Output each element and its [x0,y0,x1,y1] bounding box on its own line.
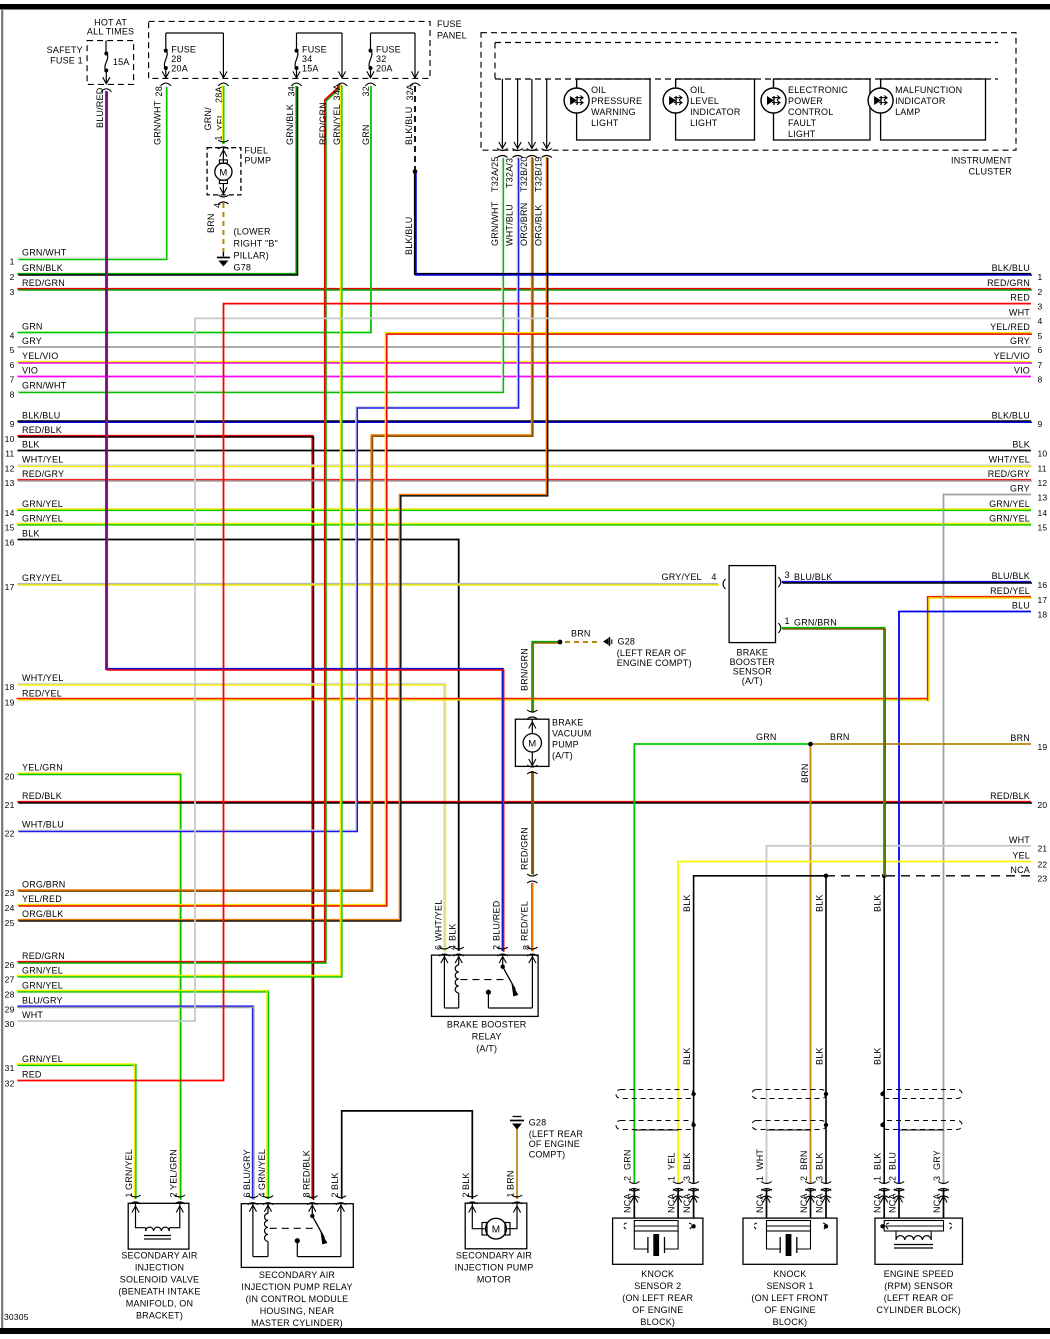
svg-text:ENGINE SPEED: ENGINE SPEED [884,1269,954,1279]
svg-text:FUSE: FUSE [376,45,401,55]
svg-text:(LEFT REAR OF: (LEFT REAR OF [884,1293,954,1303]
svg-text:YEL/RED: YEL/RED [990,322,1030,332]
svg-text:RED/BLK: RED/BLK [301,1150,311,1190]
svg-text:INJECTION: INJECTION [135,1263,184,1273]
svg-text:20A: 20A [376,64,393,74]
svg-text:19: 19 [5,697,15,707]
svg-text:21: 21 [5,800,15,810]
svg-text:20: 20 [1038,800,1048,810]
svg-text:PILLAR): PILLAR) [234,251,269,261]
svg-text:SENSOR 1: SENSOR 1 [766,1281,813,1291]
svg-text:18: 18 [5,682,15,692]
svg-text:LIGHT: LIGHT [788,129,816,139]
svg-text:13: 13 [5,478,15,488]
svg-text:2: 2 [623,1176,633,1181]
svg-text:POWER: POWER [788,96,823,106]
svg-text:ENGINE COMPT): ENGINE COMPT) [617,658,692,668]
svg-text:19: 19 [1038,742,1048,752]
svg-text:FUSE: FUSE [302,45,327,55]
svg-text:BRAKE: BRAKE [737,648,769,658]
svg-text:3: 3 [10,287,15,297]
svg-text:34: 34 [302,54,312,64]
svg-text:(LEFT REAR: (LEFT REAR [529,1129,584,1139]
svg-text:BLK: BLK [461,1172,471,1190]
svg-text:RED/GRN: RED/GRN [22,278,65,288]
svg-text:OIL: OIL [690,85,705,95]
svg-text:ORG/BLK: ORG/BLK [534,205,544,246]
svg-text:GRN: GRN [361,124,371,145]
svg-text:1: 1 [873,1176,883,1181]
svg-text:GRN/YEL: GRN/YEL [257,1149,267,1190]
svg-text:20: 20 [5,771,15,781]
svg-text:GRY: GRY [1010,484,1030,494]
svg-text:ALL TIMES: ALL TIMES [87,27,134,37]
svg-text:BLU/RED: BLU/RED [95,87,105,128]
svg-text:MANIFOLD, ON: MANIFOLD, ON [126,1299,193,1309]
svg-text:BLU: BLU [887,1152,897,1170]
svg-text:22: 22 [5,828,15,838]
svg-text:2: 2 [799,1176,809,1181]
svg-text:WARNING: WARNING [591,107,636,117]
svg-text:BRN: BRN [506,1170,516,1190]
svg-text:T32A/3: T32A/3 [505,158,515,188]
svg-text:RED/YEL: RED/YEL [520,901,530,941]
svg-text:2: 2 [492,945,502,950]
svg-text:32: 32 [376,54,386,64]
svg-text:BLK: BLK [330,1172,340,1190]
svg-text:23: 23 [1038,874,1048,884]
svg-text:16: 16 [1038,580,1048,590]
svg-text:1: 1 [785,616,790,626]
svg-text:6: 6 [242,1192,252,1197]
svg-text:6: 6 [1038,345,1043,355]
svg-text:G28: G28 [618,637,636,647]
svg-text:BRN: BRN [206,213,216,233]
svg-text:BLK: BLK [815,1047,825,1065]
svg-text:27: 27 [5,974,15,984]
svg-text:OF ENGINE: OF ENGINE [632,1305,683,1315]
svg-text:M: M [219,167,227,178]
svg-text:12: 12 [1038,478,1048,488]
svg-text:BLK/BLU: BLK/BLU [992,263,1030,273]
svg-text:BLK: BLK [1012,440,1030,450]
svg-text:8: 8 [301,1192,311,1197]
svg-text:MASTER CYLINDER): MASTER CYLINDER) [251,1318,343,1328]
svg-text:FUSE: FUSE [437,19,462,29]
svg-text:CLUSTER: CLUSTER [969,167,1013,177]
svg-text:4: 4 [448,945,458,950]
svg-text:SECONDARY AIR: SECONDARY AIR [456,1251,533,1261]
svg-text:NCA: NCA [799,1193,809,1213]
svg-text:VIO: VIO [22,366,38,376]
svg-text:26: 26 [5,960,15,970]
svg-text:14: 14 [1038,508,1048,518]
svg-text:GRN/YEL: GRN/YEL [332,104,342,145]
svg-text:BRN: BRN [830,732,850,742]
svg-text:NCA: NCA [1010,865,1030,875]
svg-text:28: 28 [5,989,15,999]
svg-text:1: 1 [755,1176,765,1181]
svg-text:23: 23 [5,888,15,898]
svg-text:YEL: YEL [666,1152,676,1170]
svg-text:20A: 20A [171,64,188,74]
svg-text:FAULT: FAULT [788,118,817,128]
svg-text:GRN/: GRN/ [203,107,213,131]
svg-text:3: 3 [932,1176,942,1181]
svg-text:GRN/YEL: GRN/YEL [22,514,63,524]
svg-text:NCA: NCA [755,1193,765,1213]
svg-text:29: 29 [5,1004,15,1014]
svg-text:KNOCK: KNOCK [641,1269,674,1279]
svg-text:INDICATOR: INDICATOR [690,107,741,117]
svg-text:3: 3 [785,570,790,580]
svg-text:4: 4 [257,1192,267,1197]
svg-text:24: 24 [5,903,15,913]
svg-text:ORG/BRN: ORG/BRN [22,879,65,889]
svg-text:WHT: WHT [1009,307,1030,317]
svg-text:HOUSING, NEAR: HOUSING, NEAR [260,1306,335,1316]
svg-text:NCA: NCA [682,1193,692,1213]
svg-text:8: 8 [1038,374,1043,384]
svg-text:15A: 15A [302,64,319,74]
svg-text:NCA: NCA [887,1193,897,1213]
svg-text:8: 8 [521,945,531,950]
svg-text:INJECTION PUMP: INJECTION PUMP [455,1263,534,1273]
svg-text:GRN/YEL: GRN/YEL [989,514,1030,524]
svg-text:BRN: BRN [800,763,810,783]
svg-text:WHT/YEL: WHT/YEL [989,455,1030,465]
svg-text:SAFETY: SAFETY [47,45,83,55]
svg-text:GRN: GRN [22,322,43,332]
svg-text:RED/YEL: RED/YEL [990,586,1030,596]
svg-text:FUSE: FUSE [171,45,196,55]
svg-text:15A: 15A [113,57,130,67]
svg-text:3: 3 [814,1176,824,1181]
svg-text:VIO: VIO [1014,366,1030,376]
svg-text:WHT/BLU: WHT/BLU [22,820,64,830]
svg-text:32: 32 [5,1078,15,1088]
svg-text:(LOWER: (LOWER [234,227,272,237]
svg-text:RED: RED [1010,293,1030,303]
svg-text:OF ENGINE: OF ENGINE [764,1305,815,1315]
svg-text:11: 11 [5,448,14,458]
svg-text:ELECTRONIC: ELECTRONIC [788,85,848,95]
svg-text:31: 31 [5,1063,15,1073]
svg-text:BLU/GRY: BLU/GRY [242,1149,252,1190]
svg-text:(A/T): (A/T) [476,1044,497,1054]
svg-text:BLK/BLU: BLK/BLU [992,410,1030,420]
svg-text:13: 13 [1038,492,1048,502]
svg-text:MALFUNCTION: MALFUNCTION [895,85,962,95]
svg-text:RED/BLK: RED/BLK [22,425,62,435]
svg-text:1: 1 [1038,272,1043,282]
svg-text:WHT/YEL: WHT/YEL [433,900,443,941]
svg-text:ORG/BLK: ORG/BLK [22,909,63,919]
svg-text:G78: G78 [234,263,252,273]
svg-text:9: 9 [1038,419,1043,429]
svg-text:OIL: OIL [591,85,606,95]
svg-text:RED/YEL: RED/YEL [22,689,62,699]
svg-text:GRY/YEL: GRY/YEL [662,572,702,582]
svg-text:21: 21 [1038,844,1048,854]
svg-text:9: 9 [10,419,15,429]
svg-text:LIGHT: LIGHT [690,118,718,128]
svg-text:15: 15 [1038,522,1048,532]
svg-text:GRY: GRY [22,336,42,346]
svg-text:SENSOR: SENSOR [733,667,773,677]
svg-text:22: 22 [1038,859,1048,869]
svg-text:34: 34 [287,86,297,96]
svg-text:(IN CONTROL MODULE: (IN CONTROL MODULE [246,1294,349,1304]
svg-text:(LEFT REAR OF: (LEFT REAR OF [617,648,687,658]
svg-text:17: 17 [5,582,15,592]
svg-text:SECONDARY AIR: SECONDARY AIR [121,1251,198,1261]
svg-text:5: 5 [1038,331,1043,341]
svg-text:FUEL: FUEL [244,146,268,156]
svg-text:MOTOR: MOTOR [477,1275,512,1285]
svg-text:NCA: NCA [623,1193,633,1213]
svg-text:KNOCK: KNOCK [773,1269,806,1279]
svg-text:BRAKE: BRAKE [552,718,584,728]
svg-text:PUMP: PUMP [552,740,579,750]
svg-text:YEL/RED: YEL/RED [22,894,62,904]
svg-text:GRY: GRY [1010,336,1030,346]
svg-text:GRN/BLK: GRN/BLK [22,263,63,273]
svg-text:32A: 32A [405,84,415,101]
svg-text:NCA: NCA [814,1193,824,1213]
svg-text:BOOSTER: BOOSTER [730,657,776,667]
svg-text:BLK: BLK [448,923,458,941]
svg-text:10: 10 [1038,448,1048,458]
svg-text:T32B/19: T32B/19 [534,157,544,192]
svg-text:RED/GRN: RED/GRN [318,102,328,145]
svg-text:2: 2 [330,1192,340,1197]
svg-text:BLK/BLU: BLK/BLU [404,107,414,145]
svg-text:(A/T): (A/T) [552,751,573,761]
svg-text:GRN/WHT: GRN/WHT [22,381,67,391]
svg-text:RIGHT "B": RIGHT "B" [234,239,279,249]
svg-text:34A: 34A [332,84,342,101]
svg-text:1: 1 [10,256,15,266]
svg-text:SECONDARY AIR: SECONDARY AIR [259,1270,336,1280]
svg-text:ORG/BRN: ORG/BRN [519,203,529,246]
svg-text:M: M [528,739,536,750]
svg-text:25: 25 [5,918,15,928]
svg-text:7: 7 [1038,360,1043,370]
svg-text:4: 4 [10,330,15,340]
svg-text:(ON LEFT REAR: (ON LEFT REAR [622,1293,693,1303]
svg-text:GRN/BLK: GRN/BLK [285,104,295,145]
svg-text:WHT/YEL: WHT/YEL [22,455,63,465]
svg-text:YEL/GRN: YEL/GRN [22,763,63,773]
svg-text:16: 16 [5,537,15,547]
svg-text:17: 17 [1038,595,1048,605]
svg-text:2: 2 [168,1192,178,1197]
svg-text:2: 2 [10,272,15,282]
svg-text:BLU: BLU [1012,601,1030,611]
svg-text:NCA: NCA [666,1193,676,1213]
svg-text:BLK: BLK [873,1047,883,1065]
svg-text:BLK/BLU: BLK/BLU [404,217,414,255]
svg-text:14: 14 [5,508,15,518]
svg-text:15: 15 [5,522,15,532]
svg-text:(BENEATH INTAKE: (BENEATH INTAKE [118,1287,200,1297]
svg-text:T32B/20: T32B/20 [519,157,529,192]
svg-text:GRN/BRN: GRN/BRN [794,618,837,628]
svg-text:(A/T): (A/T) [742,676,763,686]
svg-text:GRN/WHT: GRN/WHT [22,248,67,258]
svg-text:7: 7 [10,374,15,384]
svg-text:4: 4 [1038,316,1043,326]
svg-text:BLK: BLK [682,1047,692,1065]
svg-text:RED/GRY: RED/GRY [22,469,64,479]
svg-text:4: 4 [711,572,716,582]
svg-text:GRN/WHT: GRN/WHT [490,201,500,246]
svg-text:WHT: WHT [755,1149,765,1170]
svg-text:RED/GRY: RED/GRY [988,469,1030,479]
svg-text:VACUUM: VACUUM [552,729,592,739]
svg-text:GRY: GRY [932,1150,942,1170]
svg-text:30305: 30305 [4,1312,29,1322]
svg-text:BLOCK): BLOCK) [773,1317,808,1327]
svg-text:BLK: BLK [873,1152,883,1170]
svg-text:CONTROL: CONTROL [788,107,833,117]
svg-text:RELAY: RELAY [472,1032,502,1042]
svg-text:BRAKE BOOSTER: BRAKE BOOSTER [447,1020,527,1030]
svg-text:BLK: BLK [873,894,883,912]
svg-text:28: 28 [154,86,164,96]
svg-text:18: 18 [1038,609,1048,619]
svg-text:8: 8 [10,389,15,399]
svg-text:GRN/YEL: GRN/YEL [22,981,63,991]
svg-text:2: 2 [461,1192,471,1197]
svg-text:GRN/YEL: GRN/YEL [22,966,63,976]
svg-text:GRN/YEL: GRN/YEL [124,1149,134,1190]
svg-text:11: 11 [1038,463,1047,473]
svg-text:SOLENOID VALVE: SOLENOID VALVE [120,1275,200,1285]
svg-text:GRN: GRN [756,732,777,742]
svg-text:GRN/WHT: GRN/WHT [153,100,163,145]
svg-text:1: 1 [666,1176,676,1181]
svg-text:BLK: BLK [814,1152,824,1170]
svg-text:BLK: BLK [682,1152,692,1170]
svg-text:28: 28 [171,54,181,64]
svg-text:NCA: NCA [932,1193,942,1213]
svg-text:YEL/VIO: YEL/VIO [994,351,1030,361]
svg-text:BLOCK): BLOCK) [640,1317,675,1327]
svg-text:32: 32 [361,86,371,96]
svg-text:3: 3 [682,1176,692,1181]
svg-text:INSTRUMENT: INSTRUMENT [951,156,1012,166]
svg-text:SENSOR 2: SENSOR 2 [634,1281,681,1291]
svg-text:BLU/BLK: BLU/BLK [794,572,832,582]
svg-text:(ON LEFT FRONT: (ON LEFT FRONT [751,1293,828,1303]
svg-text:WHT/YEL: WHT/YEL [22,673,63,683]
svg-text:FUSE 1: FUSE 1 [50,56,83,66]
svg-text:BLK/BLU: BLK/BLU [22,410,60,420]
svg-text:GRY/YEL: GRY/YEL [22,573,62,583]
svg-text:RED/BLK: RED/BLK [990,791,1030,801]
svg-text:LIGHT: LIGHT [591,118,619,128]
svg-text:NCA: NCA [873,1193,883,1213]
svg-text:WHT/BLU: WHT/BLU [505,204,515,246]
svg-text:YEL/VIO: YEL/VIO [22,351,58,361]
svg-text:BLK: BLK [682,894,692,912]
svg-text:(RPM) SENSOR: (RPM) SENSOR [884,1281,953,1291]
svg-text:PRESSURE: PRESSURE [591,96,642,106]
svg-text:YEL: YEL [1012,851,1030,861]
svg-text:10: 10 [5,434,15,444]
svg-text:5: 5 [10,345,15,355]
svg-text:4: 4 [213,203,223,208]
svg-text:INDICATOR: INDICATOR [895,96,946,106]
svg-text:2: 2 [1038,287,1043,297]
svg-text:30: 30 [5,1019,15,1029]
svg-text:BLK: BLK [22,440,40,450]
svg-text:BLU/BLK: BLU/BLK [992,571,1030,581]
svg-text:M: M [492,1225,501,1236]
svg-text:PUMP: PUMP [244,156,271,166]
svg-text:BRN/GRN: BRN/GRN [520,648,530,691]
svg-text:COMPT): COMPT) [529,1150,566,1160]
svg-text:WHT: WHT [22,1010,43,1020]
svg-text:GRN/YEL: GRN/YEL [989,499,1030,509]
svg-text:12: 12 [5,463,15,473]
svg-text:RED: RED [22,1070,42,1080]
svg-text:LAMP: LAMP [895,107,920,117]
svg-text:6: 6 [433,945,443,950]
svg-text:WHT: WHT [1009,835,1030,845]
svg-text:RED/BLK: RED/BLK [22,791,62,801]
svg-text:1: 1 [506,1192,516,1197]
svg-text:1: 1 [124,1192,134,1197]
svg-text:BRN: BRN [799,1150,809,1170]
svg-text:BLK: BLK [815,894,825,912]
svg-text:BLK: BLK [22,529,40,539]
svg-text:T32A/25: T32A/25 [490,157,500,192]
svg-text:INJECTION PUMP RELAY: INJECTION PUMP RELAY [241,1282,352,1292]
svg-text:BLU/RED: BLU/RED [492,900,502,941]
svg-text:GRN/YEL: GRN/YEL [22,499,63,509]
svg-text:G28: G28 [529,1118,547,1128]
svg-text:PANEL: PANEL [437,31,467,41]
svg-text:GRN/YEL: GRN/YEL [22,1054,63,1064]
svg-text:RED/GRN: RED/GRN [22,951,65,961]
svg-text:2: 2 [887,1176,897,1181]
svg-text:RED/GRN: RED/GRN [987,278,1030,288]
svg-text:YEL/GRN: YEL/GRN [168,1149,178,1190]
svg-text:GRN: GRN [623,1149,633,1170]
svg-text:3: 3 [1038,301,1043,311]
svg-text:LEVEL: LEVEL [690,96,719,106]
svg-text:BRN: BRN [1010,733,1030,743]
svg-text:6: 6 [10,360,15,370]
svg-text:BRN: BRN [571,629,591,639]
svg-text:BRACKET): BRACKET) [136,1311,183,1321]
svg-text:RED/GRN: RED/GRN [520,827,530,870]
svg-text:BLU/GRY: BLU/GRY [22,996,63,1006]
svg-text:OF ENGINE: OF ENGINE [529,1139,580,1149]
svg-text:CYLINDER BLOCK): CYLINDER BLOCK) [876,1305,961,1315]
